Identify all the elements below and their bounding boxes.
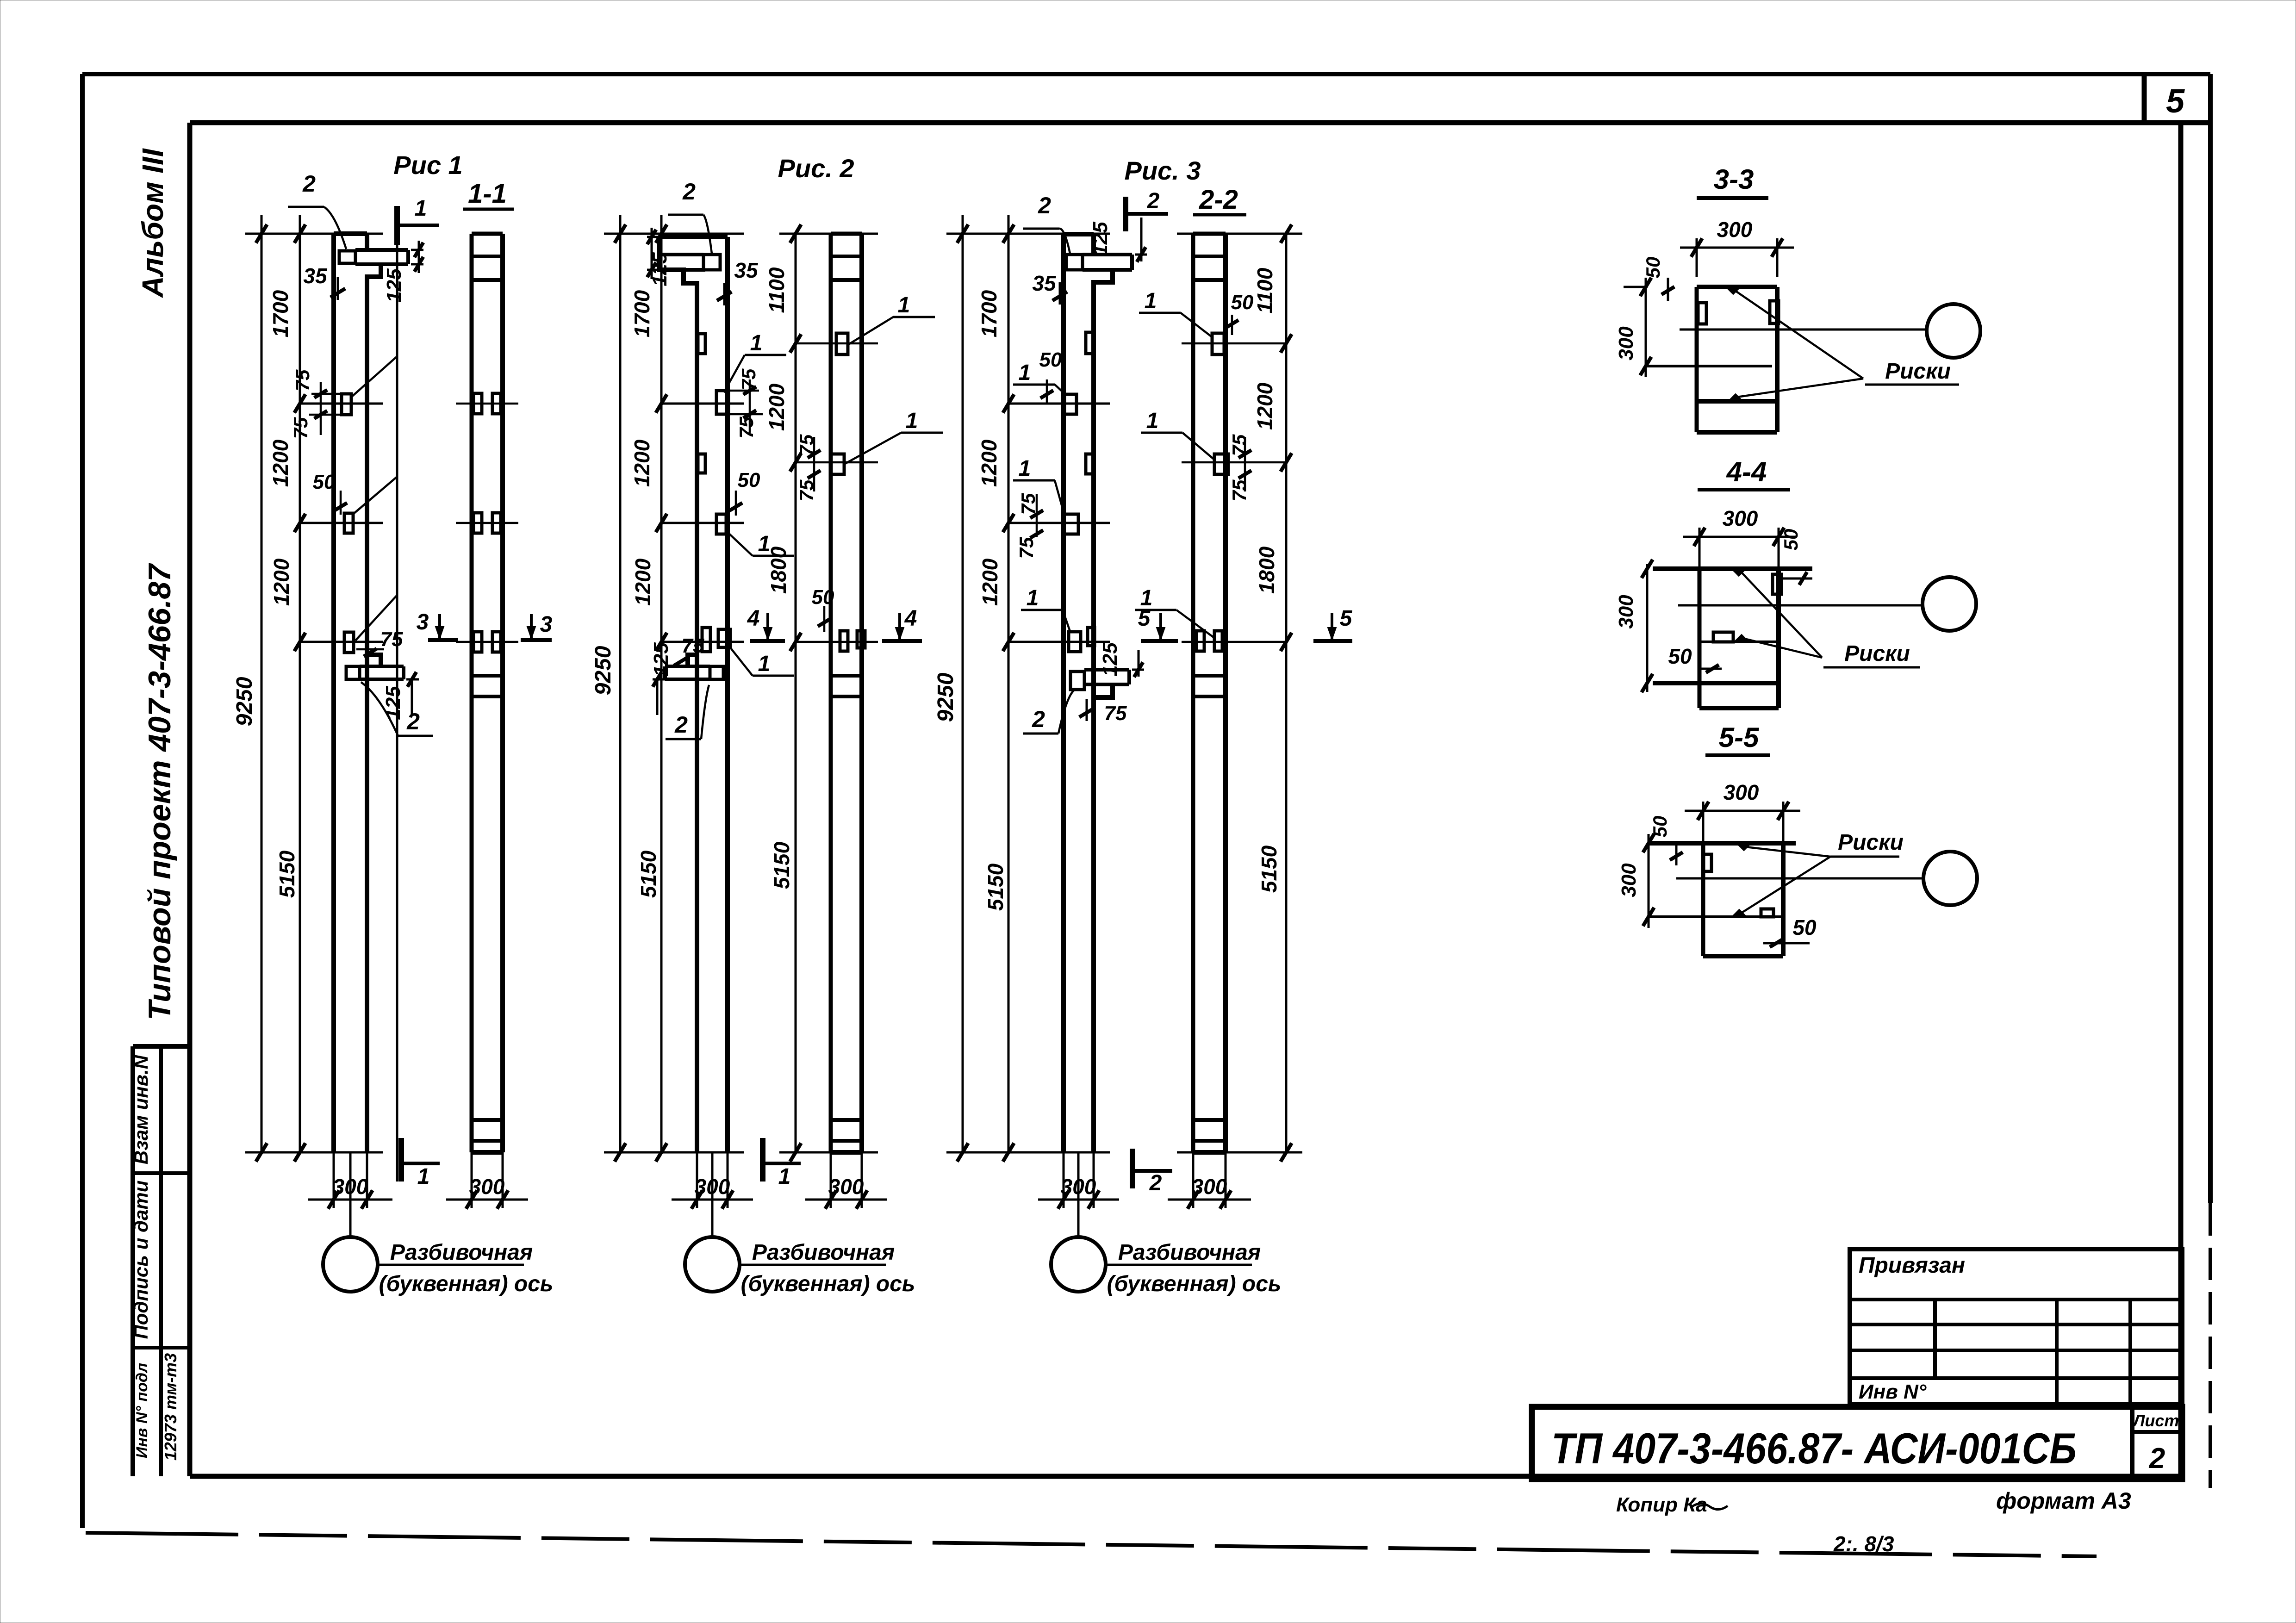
svg-text:1200: 1200 xyxy=(765,383,789,431)
svg-text:1700: 1700 xyxy=(630,290,654,337)
svg-text:1700: 1700 xyxy=(268,290,292,337)
svg-text:2: 2 xyxy=(302,171,316,197)
svg-text:1: 1 xyxy=(1146,409,1159,433)
svg-text:35: 35 xyxy=(1032,271,1057,295)
svg-text:300: 300 xyxy=(1192,1175,1227,1199)
svg-text:1200: 1200 xyxy=(630,439,654,487)
svg-text:1-1: 1-1 xyxy=(468,179,507,209)
svg-text:1200: 1200 xyxy=(268,439,292,487)
svg-text:1: 1 xyxy=(1027,586,1039,610)
svg-text:125: 125 xyxy=(1099,642,1121,677)
svg-text:50: 50 xyxy=(812,586,834,609)
svg-text:Инв N°: Инв N° xyxy=(1859,1380,1927,1403)
svg-text:50: 50 xyxy=(313,471,336,493)
svg-text:5: 5 xyxy=(1138,606,1151,631)
svg-text:50: 50 xyxy=(1039,348,1062,371)
svg-text:125: 125 xyxy=(1089,222,1112,256)
svg-text:300: 300 xyxy=(1615,595,1637,629)
svg-text:50: 50 xyxy=(1792,915,1817,939)
svg-text:35: 35 xyxy=(734,258,759,282)
svg-text:1: 1 xyxy=(758,652,771,676)
svg-text:1: 1 xyxy=(778,1164,791,1189)
svg-text:5150: 5150 xyxy=(275,850,299,898)
svg-text:3-3: 3-3 xyxy=(1714,164,1754,195)
svg-text:5: 5 xyxy=(2166,83,2185,120)
svg-text:5150: 5150 xyxy=(983,863,1008,911)
svg-text:50: 50 xyxy=(1780,529,1802,551)
svg-text:1: 1 xyxy=(750,331,763,355)
svg-text:300: 300 xyxy=(1615,326,1637,361)
svg-text:50: 50 xyxy=(1668,644,1692,668)
svg-text:(буквенная) ось: (буквенная) ось xyxy=(741,1272,915,1296)
svg-text:50: 50 xyxy=(1231,291,1254,314)
svg-text:50: 50 xyxy=(1642,257,1664,279)
svg-text:5150: 5150 xyxy=(636,850,660,898)
svg-text:ТП 407-3-466.87- АСИ-001СБ: ТП 407-3-466.87- АСИ-001СБ xyxy=(1551,1424,2077,1473)
svg-text:2-2: 2-2 xyxy=(1199,185,1238,215)
svg-text:9250: 9250 xyxy=(591,646,616,695)
svg-text:1800: 1800 xyxy=(1255,546,1279,594)
svg-text:Привязан: Привязан xyxy=(1859,1253,1965,1278)
svg-text:1100: 1100 xyxy=(765,267,789,313)
svg-text:1200: 1200 xyxy=(631,558,655,606)
svg-text:Подпись и дати: Подпись и дати xyxy=(130,1181,152,1339)
svg-text:2:. 8/3: 2:. 8/3 xyxy=(1833,1532,1894,1556)
svg-text:4-4: 4-4 xyxy=(1726,456,1767,487)
svg-text:Разбивочная: Разбивочная xyxy=(390,1240,533,1265)
svg-text:Инв N° подл: Инв N° подл xyxy=(133,1363,151,1458)
svg-text:300: 300 xyxy=(469,1175,505,1199)
svg-text:35: 35 xyxy=(303,264,328,288)
svg-text:75: 75 xyxy=(290,417,311,439)
svg-text:5150: 5150 xyxy=(770,841,794,889)
svg-text:2: 2 xyxy=(406,709,420,734)
svg-text:Разбивочная: Разбивочная xyxy=(752,1240,895,1265)
svg-text:75: 75 xyxy=(738,368,759,390)
svg-text:4: 4 xyxy=(904,606,917,631)
svg-text:1200: 1200 xyxy=(1253,382,1277,430)
svg-text:2: 2 xyxy=(1147,189,1160,213)
svg-text:1: 1 xyxy=(898,293,910,317)
svg-text:50: 50 xyxy=(738,469,760,491)
svg-text:(буквенная) ось: (буквенная) ось xyxy=(1107,1272,1282,1296)
svg-text:300: 300 xyxy=(1723,506,1758,530)
svg-text:5150: 5150 xyxy=(1257,845,1281,893)
svg-text:75: 75 xyxy=(735,417,757,438)
svg-text:300: 300 xyxy=(828,1175,864,1199)
svg-text:1700: 1700 xyxy=(977,290,1001,337)
svg-text:300: 300 xyxy=(1717,218,1753,242)
svg-text:Рис 1: Рис 1 xyxy=(393,150,462,180)
svg-text:5-5: 5-5 xyxy=(1719,722,1760,753)
svg-text:2: 2 xyxy=(674,712,688,738)
svg-text:1: 1 xyxy=(1145,289,1157,313)
svg-text:9250: 9250 xyxy=(933,672,958,722)
svg-text:Альбом III: Альбом III xyxy=(136,148,169,298)
svg-text:Риски: Риски xyxy=(1844,641,1910,666)
svg-text:4: 4 xyxy=(747,606,760,631)
svg-text:125: 125 xyxy=(648,252,671,286)
svg-text:Взам инв.N: Взам инв.N xyxy=(130,1054,152,1164)
svg-text:75: 75 xyxy=(1228,479,1250,501)
svg-text:формат А3: формат А3 xyxy=(1996,1488,2131,1514)
svg-text:1: 1 xyxy=(758,532,771,556)
svg-text:75: 75 xyxy=(380,628,403,651)
svg-text:Рис. 2: Рис. 2 xyxy=(778,154,854,183)
svg-text:75: 75 xyxy=(796,479,817,501)
svg-text:2: 2 xyxy=(1149,1171,1162,1195)
svg-text:1200: 1200 xyxy=(978,558,1002,606)
svg-text:125: 125 xyxy=(382,686,404,720)
svg-text:1: 1 xyxy=(415,196,427,221)
svg-text:Риски: Риски xyxy=(1885,359,1951,384)
svg-text:75: 75 xyxy=(1228,434,1250,456)
svg-text:1200: 1200 xyxy=(269,558,293,606)
svg-text:50: 50 xyxy=(1649,816,1671,838)
svg-text:1: 1 xyxy=(906,409,918,433)
svg-text:3: 3 xyxy=(417,610,429,634)
svg-text:75: 75 xyxy=(682,634,704,657)
svg-text:Разбивочная: Разбивочная xyxy=(1118,1240,1261,1265)
svg-text:Лист: Лист xyxy=(2132,1411,2179,1430)
svg-text:Рис. 3: Рис. 3 xyxy=(1125,156,1201,185)
svg-text:1200: 1200 xyxy=(977,439,1001,487)
svg-text:1: 1 xyxy=(1019,456,1031,481)
svg-text:Риски: Риски xyxy=(1838,830,1904,855)
svg-text:2: 2 xyxy=(1032,706,1045,732)
svg-text:125: 125 xyxy=(383,268,405,303)
svg-text:75: 75 xyxy=(1104,702,1127,725)
svg-text:300: 300 xyxy=(1724,780,1759,804)
svg-text:9250: 9250 xyxy=(232,677,257,726)
svg-text:125: 125 xyxy=(650,642,672,677)
svg-text:75: 75 xyxy=(796,434,817,456)
svg-text:1100: 1100 xyxy=(1253,267,1277,313)
svg-text:3: 3 xyxy=(540,612,553,637)
svg-text:1: 1 xyxy=(417,1164,430,1189)
svg-text:2: 2 xyxy=(2149,1443,2165,1474)
svg-text:5: 5 xyxy=(1340,606,1353,631)
svg-text:12973 тм-т3: 12973 тм-т3 xyxy=(161,1353,180,1461)
svg-text:1: 1 xyxy=(1019,361,1031,385)
svg-text:2: 2 xyxy=(1038,193,1051,218)
svg-text:300: 300 xyxy=(1618,863,1640,897)
svg-text:75: 75 xyxy=(1015,537,1037,559)
svg-text:(буквенная) ось: (буквенная) ось xyxy=(379,1272,554,1296)
svg-text:75: 75 xyxy=(292,369,313,391)
svg-text:75: 75 xyxy=(1017,493,1039,515)
svg-text:2: 2 xyxy=(682,179,696,205)
svg-text:Типовой проект 407-3-466.87: Типовой проект 407-3-466.87 xyxy=(142,563,177,1020)
